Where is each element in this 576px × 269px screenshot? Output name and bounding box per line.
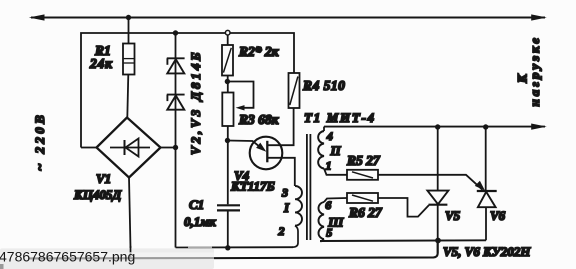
- wire bridge right vertex lead: [161, 147, 176, 149]
- arrow left end of top rail: [29, 14, 45, 20]
- node dot below R2: [225, 79, 230, 84]
- node dot C1 bottom: [225, 245, 230, 250]
- svg-text:47867867657657.png: 47867867657657.png: [0, 248, 135, 264]
- node dot V6 cathode on load rail: [483, 124, 488, 129]
- svg-text:2: 2: [278, 224, 285, 238]
- svg-text:С1: С1: [189, 197, 204, 212]
- V4 base1 lead to winding I: [267, 158, 295, 186]
- wire bottom rail: [131, 241, 438, 259]
- node junction dot on top rail at R1: [126, 15, 131, 20]
- svg-text:0,1мк: 0,1мк: [184, 214, 216, 229]
- node dot V5 anode on load rail: [435, 124, 440, 129]
- wire inner dc+ line y=33: [81, 33, 294, 148]
- transformer T1 winding III: [318, 202, 324, 239]
- wire pin4 lead: [323, 127, 325, 131]
- capacitor C1: [227, 141, 229, 205]
- transistor V4 unijunction: [250, 137, 283, 170]
- wire pin1 lead to R5: [324, 169, 347, 175]
- svg-text:КЦ405Д: КЦ405Д: [73, 187, 122, 202]
- svg-text:3: 3: [281, 186, 288, 200]
- resistor R6: [347, 193, 378, 203]
- transformer core: [306, 134, 308, 240]
- svg-text:4: 4: [326, 129, 333, 143]
- svg-text:V5, V6 КУ202Н: V5, V6 КУ202Н: [443, 244, 531, 259]
- svg-text:V5: V5: [445, 208, 461, 223]
- wire zener column: [175, 33, 177, 248]
- node dot zener column top: [173, 30, 178, 35]
- wire bottom rail grayed under overlay: [28, 257, 214, 259]
- V4 emitter wire: [228, 141, 264, 150]
- svg-text:R3 68к: R3 68к: [238, 112, 280, 127]
- transformer T1 winding I: [295, 186, 302, 226]
- zener diode V2: [167, 58, 185, 73]
- bridge rectifier V1 diamond: [97, 118, 161, 178]
- wire bridge bottom lead grayed under overlay: [130, 246, 132, 253]
- arrow right end of top rail: [531, 14, 547, 20]
- svg-text:КТ117Б: КТ117Б: [230, 179, 275, 194]
- svg-text:Т1 МИТ-4: Т1 МИТ-4: [304, 110, 376, 125]
- node dot bridge right vertex: [173, 145, 178, 150]
- wire bridge bottom lead: [129, 178, 131, 249]
- svg-text:5: 5: [326, 226, 332, 240]
- svg-text:R4 510: R4 510: [302, 78, 345, 93]
- wire top rail: [31, 17, 545, 19]
- wire pin5 lead: [320, 239, 324, 241]
- resistor R1: [128, 18, 130, 44]
- transformer T1 winding II: [318, 131, 324, 169]
- node dot below R3: [225, 138, 230, 143]
- svg-text:24к: 24к: [89, 56, 113, 71]
- corner scan mark: [0, 264, 4, 269]
- wire R6 to V5 gate: [378, 198, 429, 217]
- thyristor V6: [485, 127, 487, 191]
- svg-text:R6 27: R6 27: [348, 205, 383, 220]
- resistor R2: [225, 30, 230, 35]
- wire pin6 lead to R6: [324, 198, 347, 202]
- wire load rail y=126.6: [324, 126, 545, 128]
- resistor R5: [347, 170, 378, 180]
- potentiometer R3: [222, 93, 233, 127]
- V4 base2 lead to R4: [267, 108, 293, 145]
- svg-text:V6: V6: [490, 208, 506, 223]
- wire winding I pin2 lead: [293, 226, 299, 248]
- thyristor V5: [437, 127, 439, 191]
- node dot V5 cathode junction: [435, 238, 441, 244]
- svg-text:нагрузке: нагрузке: [527, 35, 542, 107]
- svg-text:R2* 2к: R2* 2к: [238, 44, 280, 59]
- wire R5 to V6 gate: [378, 175, 483, 190]
- V4 base bar: [266, 141, 268, 163]
- svg-text:~ 220В: ~ 220В: [32, 112, 47, 171]
- wire cathode line y=240.4: [320, 239, 486, 242]
- wire dc minus line y=247.5: [176, 246, 294, 248]
- diode inside bridge V1: [110, 147, 150, 149]
- svg-text:II: II: [330, 143, 342, 158]
- arrow right end load rail: [531, 124, 547, 130]
- svg-text:I: I: [283, 200, 290, 215]
- wire lead from left column to bridge left vertex: [81, 147, 97, 149]
- svg-text:1: 1: [326, 159, 332, 173]
- svg-text:V1: V1: [96, 171, 111, 186]
- resistor R4: [289, 73, 300, 108]
- svg-text:R5 27: R5 27: [346, 153, 381, 168]
- zener diode V3: [167, 95, 185, 110]
- overlay filename bar: [0, 248, 214, 269]
- svg-text:V2,V3 Д814Б: V2,V3 Д814Б: [188, 50, 203, 155]
